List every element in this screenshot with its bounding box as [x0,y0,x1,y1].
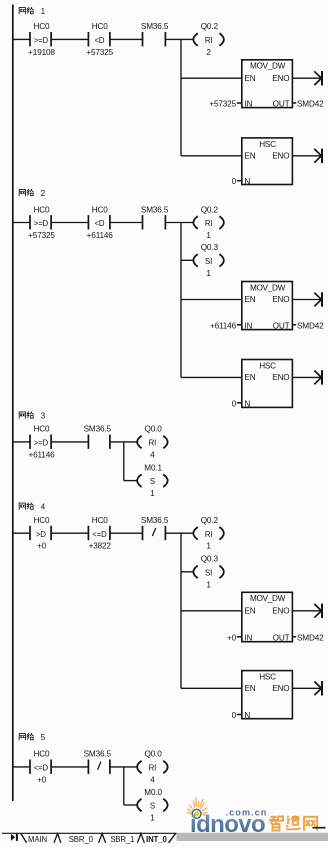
svg-text:ENO: ENO [272,74,289,83]
branch vertical (network 4) [180,533,182,688]
ENO continuation arrow (network 1 HSC) [292,149,322,163]
tab separator 3 [137,834,144,843]
svg-text:EN: EN [244,295,255,304]
branch wire to HSC EN (network 1) [181,155,242,157]
svg-text:HSC: HSC [259,361,276,370]
wire to output coil [110,441,137,443]
branch wire to MOV_DW EN (network 1) [181,77,242,79]
compare contact HC0 >=D (network 1) [28,22,55,57]
svg-text:4: 4 [150,450,155,459]
coil Q0.2 RI 1 (network 4) [193,516,224,551]
svg-text:EN: EN [244,74,255,83]
HSC N pin (network 2) [232,399,251,408]
wire [13,222,30,224]
coil Q0.3 SI 1 (network 2) [193,243,224,278]
ENO continuation arrow (network 4 MOV_DW) [292,604,322,618]
svg-text:HC0: HC0 [34,22,51,31]
svg-text:+57325: +57325 [209,100,236,109]
contact SM36.5 (network 2) [141,205,169,229]
wire to output coil [165,38,193,40]
compare contact HC0 <D (network 2) [87,205,114,240]
svg-text:1: 1 [206,231,211,240]
svg-text:MAIN: MAIN [28,835,47,844]
HSC EN/ENO pins (network 4) [244,684,289,693]
svg-text:M0.1: M0.1 [144,463,162,472]
svg-text:4: 4 [41,503,46,512]
svg-text:+61146: +61146 [87,231,114,240]
svg-text:EN: EN [244,373,255,382]
tab MAIN left slant [21,834,27,843]
svg-text:Q0.0: Q0.0 [145,425,163,434]
NOT contact SM36.5 (network 4) [141,516,169,540]
operand +57325 [237,102,242,104]
branch wire to HSC EN (network 4) [181,687,242,689]
svg-text:RI: RI [149,764,157,773]
operand 0 [237,714,242,716]
compare contact HC0 <D (network 1) [86,22,113,57]
network 1 label 网络 1 [19,7,46,16]
coil Q0.0 RI 4 (network 3) [137,425,168,460]
svg-text:+61146: +61146 [210,321,237,330]
compare contact HC0 >=D (network 2) [28,205,55,240]
wire [110,38,143,40]
tab scroll button [11,834,18,841]
svg-text:SM36.5: SM36.5 [141,22,169,31]
coil M0.1 S 1 (network 3) [137,463,168,498]
wire [51,441,88,443]
svg-text:0: 0 [232,711,237,720]
svg-text:SI: SI [205,257,212,266]
svg-text:RI: RI [149,439,157,448]
MOV_DW EN/ENO pins (network 2) [244,295,289,304]
svg-text:>=D: >=D [34,219,49,228]
svg-text:Q0.0: Q0.0 [145,750,163,759]
svg-text:+0: +0 [37,542,47,551]
svg-text:MOV_DW: MOV_DW [250,594,286,603]
svg-text:N: N [244,399,250,408]
svg-text:+57325: +57325 [86,48,113,57]
svg-text:ENO: ENO [272,373,289,382]
svg-text:MOV_DW: MOV_DW [250,283,286,292]
MOV_DW IN/OUT pins (network 1) [209,100,324,109]
tab separator 1 [54,834,61,843]
coil Q0.2 RI 2 (network 1) [193,22,224,57]
MOV_DW EN/ENO pins (network 4) [244,607,289,616]
svg-text:HC0: HC0 [34,516,51,525]
block HSC (network 1) [242,138,293,185]
watermark dash [313,827,326,829]
branch vertical (network 5) [123,767,125,805]
wire [110,222,143,224]
left power rail [12,5,14,802]
ENO continuation arrow (network 2 MOV_DW) [292,292,322,306]
MOV_DW IN/OUT pins (network 4) [227,633,324,642]
svg-text:HC0: HC0 [92,205,109,214]
wire [51,766,88,768]
operand SMD42 [292,636,296,638]
watermark sun rays [187,798,207,815]
coil Q0.3 SI 1 (network 4) [193,555,224,590]
svg-text:ENO: ENO [272,295,289,304]
HSC N pin (network 4) [232,711,251,720]
svg-text:HC0: HC0 [34,425,51,434]
wire [13,532,30,534]
ENO continuation arrow (network 2 HSC) [292,370,322,384]
svg-text:<D: <D [95,219,105,228]
compare contact HC0 <=D (network 5) [30,750,51,785]
svg-text:ENO: ENO [272,684,289,693]
svg-text:SM36.5: SM36.5 [141,516,169,525]
svg-text:+0: +0 [227,633,237,642]
contact SM36.5 (network 1) [141,22,169,46]
wire [51,38,88,40]
tab separator 2 [99,834,106,843]
network 5 label 网络 5 [19,733,46,742]
svg-text:4: 4 [150,775,155,784]
wire [51,532,88,534]
svg-text:<=D: <=D [92,530,107,539]
branch wire to coil Q0.3 (network 4) [181,571,193,573]
block HSC (network 4) [242,671,293,719]
svg-text:HC0: HC0 [92,516,109,525]
branch wire to MOV_DW EN (network 4) [181,610,242,612]
svg-text:+61146: +61146 [28,450,55,459]
contact SM36.5 (network 3) [84,425,112,449]
svg-text:SMD42: SMD42 [297,321,324,330]
svg-text:INT_0: INT_0 [146,835,167,844]
operand 0 [237,180,242,182]
operand SMD42 [292,102,296,104]
svg-text:SM36.5: SM36.5 [141,205,169,214]
svg-text:0: 0 [232,399,237,408]
branch vertical (network 2) [180,223,182,378]
wire [13,766,30,768]
svg-text:OUT: OUT [273,100,290,109]
svg-text:1: 1 [206,580,211,589]
svg-text:+19108: +19108 [28,48,55,57]
svg-text:SM36.5: SM36.5 [84,425,112,434]
svg-text:HC0: HC0 [34,750,51,759]
svg-text:<=D: <=D [34,764,49,773]
svg-text:0: 0 [232,177,237,186]
svg-text:RI: RI [205,530,213,539]
svg-text:5: 5 [41,733,46,742]
svg-text:RI: RI [205,36,213,45]
svg-text:OUT: OUT [273,321,290,330]
branch vertical (network 1) [180,39,182,155]
branch wire to coil Q0.3 (network 2) [181,259,193,261]
svg-text:S: S [150,477,155,486]
svg-text:Q0.3: Q0.3 [201,243,219,252]
svg-text:N: N [244,177,250,186]
svg-text:SMD42: SMD42 [297,633,324,642]
watermark 智造网 characters [269,816,317,831]
coil Q0.0 RI 4 (network 5) [137,750,168,785]
ENO continuation arrow (network 1 MOV_DW) [292,71,322,85]
wire [51,222,88,224]
branch wire to MOV_DW EN (network 2) [181,299,242,301]
coil Q0.2 RI 1 (network 2) [193,205,224,240]
block MOV_DW (network 2) [242,282,293,330]
svg-text:1: 1 [41,7,46,16]
MOV_DW IN/OUT pins (network 2) [210,321,324,330]
operand +61146 [237,324,242,326]
compare contact HC0 >D (network 4) [30,516,51,551]
svg-text:RI: RI [205,219,213,228]
svg-text:2: 2 [41,189,46,198]
svg-text:SI: SI [205,568,212,577]
svg-text:+57325: +57325 [28,231,55,240]
svg-text:Q0.2: Q0.2 [201,205,219,214]
svg-text:SBR_1: SBR_1 [110,835,134,844]
svg-text:N: N [244,711,250,720]
svg-text:M0.0: M0.0 [144,788,162,797]
block HSC (network 2) [242,360,293,408]
svg-text:ENO: ENO [272,152,289,161]
HSC EN/ENO pins (network 2) [244,373,289,382]
branch wire to coil M0.0 (network 5) [124,804,137,806]
svg-text:HSC: HSC [259,140,276,149]
operand 0 [237,402,242,404]
svg-text:EN: EN [244,684,255,693]
wire to output coil [165,532,193,534]
svg-text:SMD42: SMD42 [297,100,324,109]
block MOV_DW (network 4) [242,592,293,641]
watermark sun (dot of i) [192,809,201,818]
wire to output coil [110,766,137,768]
svg-text:1: 1 [150,489,155,498]
operand +0 [237,636,242,638]
wire [13,441,30,443]
network 4 label 网络 4 [19,503,46,512]
horizontal scrollbar [177,833,328,841]
svg-text:2: 2 [206,48,211,57]
svg-text:IN: IN [244,321,252,330]
network 2 label 网络 2 [19,189,46,198]
HSC EN/ENO pins (network 1) [244,152,289,161]
MOV_DW EN/ENO pins (network 1) [244,74,289,83]
svg-text:ENO: ENO [272,607,289,616]
wire to output coil [165,222,193,224]
svg-text:3: 3 [41,412,46,421]
svg-text:>=D: >=D [34,439,49,448]
svg-text:OUT: OUT [273,633,290,642]
operand SMD42 [292,324,296,326]
svg-text:EN: EN [244,152,255,161]
branch vertical (network 3) [123,442,125,481]
svg-text:Q0.3: Q0.3 [201,555,219,564]
svg-text:.com.cn: .com.cn [226,808,268,818]
svg-text:1: 1 [206,269,211,278]
network 3 label 网络 3 [19,412,46,421]
tab INT_0 right slant [169,833,176,842]
NOT contact SM36.5 (network 5) [84,750,112,774]
svg-text:1: 1 [206,542,211,551]
svg-text:HSC: HSC [259,673,276,682]
tab bar top border [2,832,177,834]
branch wire to HSC EN (network 2) [181,376,242,378]
HSC N pin (network 1) [232,177,251,186]
svg-text:IN: IN [244,633,252,642]
ENO continuation arrow (network 4 HSC) [292,681,322,695]
svg-text:1: 1 [150,814,155,823]
svg-text:SBR_0: SBR_0 [69,835,94,844]
svg-text:MOV_DW: MOV_DW [250,62,286,71]
branch wire to coil M0.1 (network 3) [124,480,137,482]
svg-text:Q0.2: Q0.2 [201,516,219,525]
svg-text:+3822: +3822 [89,542,112,551]
svg-text:HC0: HC0 [34,205,51,214]
block MOV_DW (network 1) [242,60,293,108]
svg-text:>D: >D [36,530,46,539]
svg-text:>=D: >=D [34,36,49,45]
svg-text:HC0: HC0 [92,22,109,31]
wire [110,532,143,534]
svg-text:EN: EN [244,607,255,616]
wire [13,38,30,40]
svg-text:Q0.2: Q0.2 [201,22,219,31]
coil M0.0 S 1 (network 5) [137,788,168,823]
svg-text:IN: IN [244,100,252,109]
svg-text:<D: <D [95,36,105,45]
compare contact HC0 <=D (network 4) [88,516,111,551]
compare contact HC0 >=D (network 3) [28,425,55,460]
svg-text:+0: +0 [37,775,47,784]
svg-text:SM36.5: SM36.5 [84,750,112,759]
svg-text:S: S [150,802,155,811]
